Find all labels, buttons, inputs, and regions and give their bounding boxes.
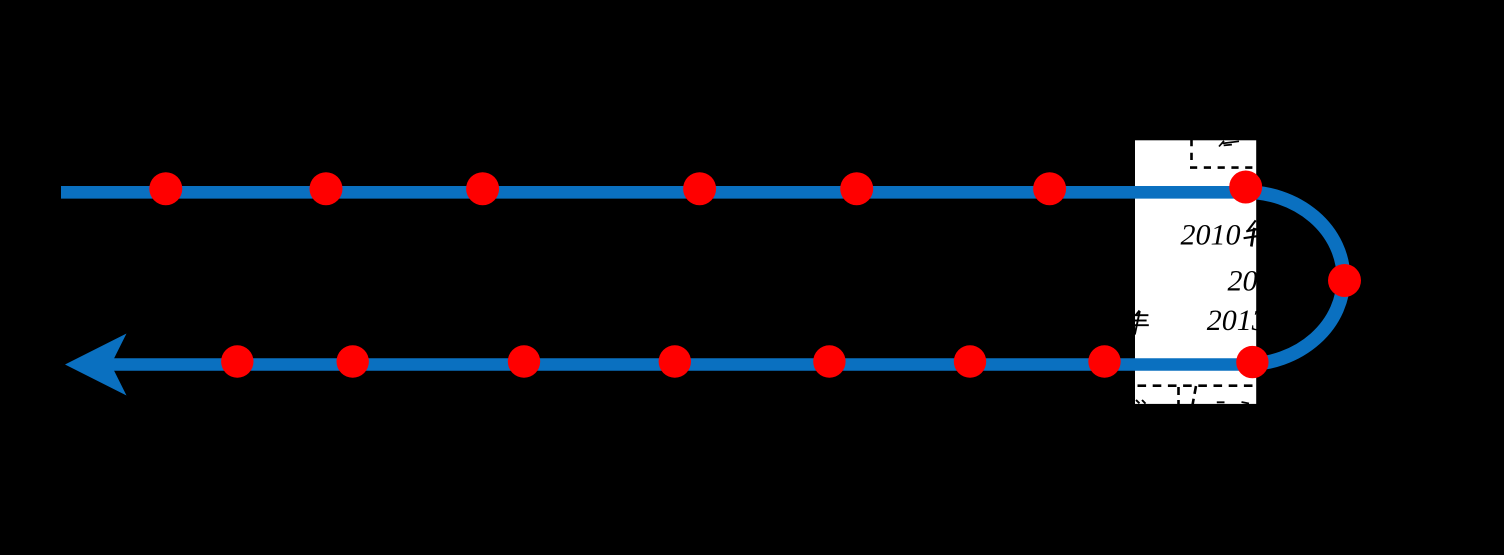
arrowhead (stealth, left end of bottom line) [65, 334, 127, 396]
dot B2 [337, 345, 369, 377]
dot T4 [683, 172, 716, 205]
glyph fragments at bottom edge of box [1136, 400, 1249, 404]
partial 年 after 2010 (hand drawn strokes) [1244, 220, 1257, 246]
dot T6 [1033, 172, 1066, 205]
dot B7 [1088, 345, 1120, 377]
dot B4 [659, 345, 691, 377]
svg-text:2011: 2011 [1228, 264, 1286, 297]
dot B8 [1236, 346, 1268, 378]
white text box [1135, 140, 1256, 404]
timeline bottom line [108, 358, 1250, 370]
dashed callout boxes (bottom, partially visible) [1138, 384, 1258, 387]
red dots, top line [149, 171, 1361, 379]
timeline top line [61, 186, 1248, 199]
dot B3 [508, 345, 540, 377]
dot T5 [840, 172, 873, 205]
glyph fragment at top edge of box [1219, 141, 1239, 147]
dot T1 [149, 172, 182, 205]
partial 年 at left edge of box (line 3) [1135, 311, 1149, 335]
svg-text:2013: 2013 [1207, 304, 1267, 337]
dot T3 [466, 172, 499, 205]
dot B1 [221, 345, 253, 377]
svg-text:2010: 2010 [1181, 218, 1241, 251]
dot T7 [1229, 171, 1262, 204]
dot on arc right [1328, 264, 1361, 297]
dot T2 [310, 172, 343, 205]
dot B5 [813, 345, 845, 377]
timeline U-curve on right [1244, 192, 1344, 365]
dot B6 [954, 345, 986, 377]
dashed callout box (top, partially visible) [1190, 139, 1257, 168]
